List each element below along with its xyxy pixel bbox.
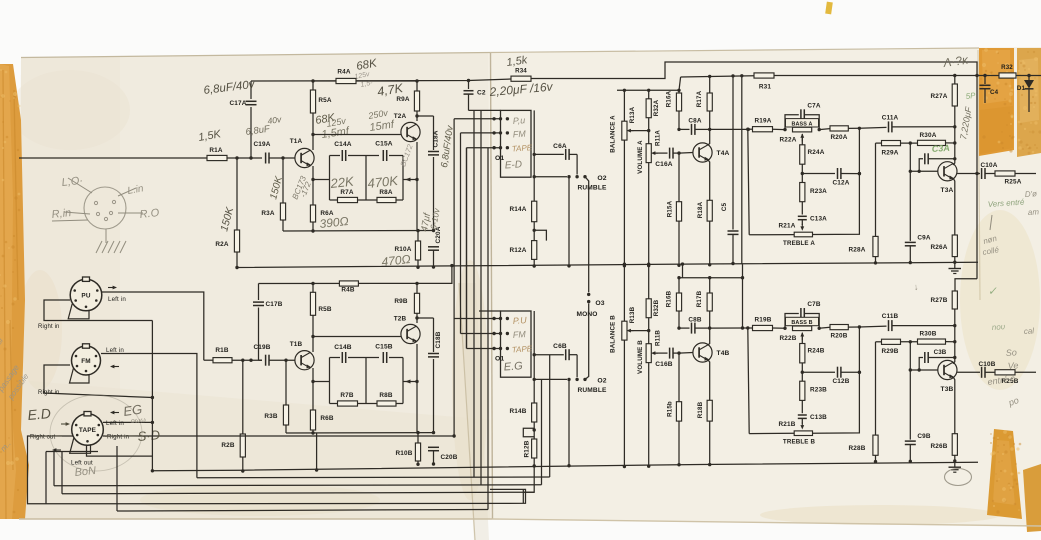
svg-text:D'ø: D'ø — [1025, 189, 1038, 199]
svg-text:R15A: R15A — [667, 200, 674, 217]
svg-text:R9B: R9B — [394, 298, 407, 305]
potentiometer bass track B — [793, 326, 812, 331]
svg-text:R24A: R24A — [808, 149, 825, 156]
capacitor C20B — [432, 431, 435, 434]
transistor T1B — [295, 351, 314, 370]
fold crease lower middle — [459, 283, 489, 540]
svg-text:R3A: R3A — [261, 210, 274, 217]
crease before right tape — [978, 50, 980, 300]
svg-text:O2: O2 — [597, 175, 606, 182]
svg-text:R9A: R9A — [396, 96, 409, 103]
vertical feed to B — [976, 76, 978, 174]
capacitor C11B — [859, 325, 886, 328]
capacitor C11A — [859, 126, 886, 129]
svg-text:R12A: R12A — [510, 247, 527, 254]
svg-text:C4: C4 — [990, 89, 999, 96]
svg-text:R10B: R10B — [396, 450, 413, 457]
svg-text:MONO: MONO — [576, 311, 597, 318]
svg-text:R32A: R32A — [653, 99, 660, 116]
wire box stubs — [313, 179, 330, 181]
svg-text:L,O·: L,O· — [61, 175, 84, 189]
svg-text:nου: nου — [992, 322, 1006, 332]
pencil hatch under DIN sketch — [96, 241, 102, 253]
bus riser L3 — [541, 380, 543, 485]
wire O2A return — [568, 177, 570, 266]
svg-text:C11B: C11B — [882, 313, 899, 320]
bundle riser 4 — [473, 110, 475, 477]
svg-text:Left in: Left in — [106, 420, 124, 427]
resistor R28B — [875, 342, 877, 435]
wire O1B row2 — [461, 333, 501, 335]
wire T1B emitter — [312, 368, 314, 410]
capacitor C6B — [533, 353, 536, 356]
svg-text:PU: PU — [81, 292, 90, 299]
pencil DIN sketch circle — [84, 187, 126, 229]
RC box C14A R7A C15A R8A — [330, 155, 341, 157]
resistor R23A — [801, 174, 803, 183]
wire TAPE right-in — [103, 435, 454, 437]
arrow left near right-out — [55, 449, 61, 451]
wire O2B return — [568, 379, 570, 465]
resistor R6A — [310, 205, 315, 222]
resistor R12B — [532, 439, 537, 458]
resistor R5B — [311, 282, 314, 285]
wire O1A row2 — [461, 132, 501, 134]
svg-text:TREBLE B: TREBLE B — [783, 439, 816, 446]
svg-text:VOLUME B: VOLUME B — [637, 340, 644, 374]
potentiometer volume B — [648, 331, 650, 344]
svg-text:E.G: E.G — [503, 360, 523, 373]
resistor R15b — [678, 353, 680, 402]
svg-text:R5B: R5B — [318, 306, 331, 313]
resistor R12A — [532, 241, 537, 260]
wire FM left-in — [101, 354, 197, 478]
resistor R5A — [311, 79, 314, 82]
svg-text:Right in: Right in — [38, 390, 60, 396]
wire O3 to O2B — [586, 304, 589, 380]
svg-text:C17A: C17A — [230, 100, 247, 107]
arrow TAPE left-in — [113, 412, 119, 414]
resistor R25B — [995, 370, 1015, 375]
svg-text:R21A: R21A — [779, 223, 796, 230]
svg-text:R16B: R16B — [666, 290, 673, 307]
connector PU — [70, 279, 102, 311]
svg-text:T1A: T1A — [290, 138, 303, 145]
wire O2A to O3 — [585, 177, 589, 293]
potentiometer R13B balance — [623, 263, 626, 266]
transistor T2A — [401, 122, 420, 141]
svg-text:R11B: R11B — [655, 330, 662, 346]
svg-text:O3: O3 — [595, 300, 604, 307]
svg-text:R19B: R19B — [755, 317, 772, 324]
top right tape piece 2 — [1017, 48, 1041, 157]
resistor R17A — [709, 76, 711, 93]
yellow mark top — [825, 2, 833, 15]
transistor T4A — [693, 143, 712, 162]
svg-text:R2A: R2A — [215, 241, 228, 248]
svg-text:P,u: P,u — [512, 115, 525, 126]
wiper treble A — [801, 224, 803, 228]
resistor R7B — [338, 401, 358, 406]
svg-text:Sο: Sο — [1005, 347, 1017, 358]
svg-text:C17B: C17B — [266, 301, 283, 308]
svg-text:R29B: R29B — [882, 348, 899, 355]
svg-text:VOLUME A: VOLUME A — [637, 140, 644, 174]
resistor R31 — [754, 73, 774, 78]
svg-text:TAPE: TAPE — [79, 427, 97, 434]
resistor R4B — [339, 281, 358, 286]
capacitor C2 — [467, 79, 470, 82]
bass loop C7B — [785, 314, 799, 329]
svg-text:C7B: C7B — [807, 301, 820, 308]
diode D1 — [1028, 76, 1030, 81]
pencil arrow right edge — [990, 215, 992, 230]
resistor R1B — [204, 359, 213, 361]
svg-text:Right out: Right out — [30, 435, 56, 441]
svg-text:R16A: R16A — [666, 90, 673, 107]
svg-text:R19A: R19A — [755, 118, 772, 125]
wire top rail A — [251, 79, 511, 81]
wire top rail B — [259, 266, 452, 284]
svg-text:FM: FM — [512, 129, 526, 140]
capacitor C8B — [679, 327, 690, 329]
wire PU left-in — [102, 292, 204, 360]
wiper bass A — [801, 136, 803, 141]
svg-text:C16A: C16A — [655, 161, 673, 168]
transistor T4B — [693, 343, 712, 362]
paper edge shadows — [21, 53, 490, 58]
svg-text:Right in: Right in — [107, 434, 130, 441]
wire T2B base — [313, 336, 401, 338]
arrow into TAPE — [61, 423, 67, 425]
switch O3 mono — [587, 293, 590, 296]
svg-text:C3A: C3A — [931, 143, 950, 154]
wire O1B row1 — [454, 318, 500, 320]
wiper bass B — [801, 335, 803, 340]
wiper treble B — [801, 423, 803, 427]
wire feedback line B — [286, 432, 434, 434]
svg-text:C14B: C14B — [334, 344, 352, 351]
bus line L2 — [197, 476, 550, 479]
resistor R10A — [415, 241, 420, 260]
svg-text:R21B: R21B — [779, 421, 796, 428]
svg-text:R30A: R30A — [920, 132, 937, 139]
svg-text:22K: 22K — [329, 174, 356, 192]
svg-text:Left in: Left in — [108, 296, 126, 303]
wire B feed jog — [955, 279, 977, 291]
resistor R8B — [377, 401, 396, 406]
potentiometer R13A balance — [623, 89, 626, 92]
resistor R32A — [647, 89, 650, 92]
svg-text:R27A: R27A — [931, 93, 948, 100]
svg-text:TAPE: TAPE — [512, 344, 534, 354]
wire treble bottom A — [749, 234, 794, 236]
svg-text:E-D: E-D — [504, 159, 522, 171]
transistor T1A — [295, 148, 314, 167]
svg-text:C18B: C18B — [435, 331, 442, 348]
wiper balance A — [630, 130, 634, 132]
resistor R27A — [954, 76, 956, 85]
resistor R4A — [313, 80, 336, 82]
switch box O1 B — [501, 311, 532, 377]
resistor R19A — [748, 128, 753, 130]
resistor R15A — [678, 153, 680, 202]
svg-text:R17A: R17A — [696, 90, 703, 107]
wire FM right-in — [44, 365, 152, 398]
svg-text:BASS A: BASS A — [791, 121, 812, 127]
svg-text:T3A: T3A — [941, 187, 954, 194]
connector TAPE — [72, 414, 104, 446]
capacitor C19A — [265, 153, 267, 164]
pencil circle around TAPE — [50, 395, 142, 471]
resistor R20A — [830, 126, 848, 131]
wire T2A emitter down — [416, 142, 418, 180]
resistor R10B — [415, 443, 420, 461]
resistor R16B — [678, 278, 680, 293]
resistor R29A — [876, 142, 882, 144]
resistor R20B — [830, 325, 848, 330]
svg-text:C10A: C10A — [981, 162, 998, 169]
svg-text:C7A: C7A — [807, 103, 820, 110]
svg-text:R28B: R28B — [849, 445, 866, 452]
svg-text:FM: FM — [81, 358, 91, 365]
resistor R14B — [533, 311, 535, 403]
long vertical V2 — [741, 76, 743, 264]
resistor R8A — [377, 197, 396, 202]
svg-text:R23A: R23A — [810, 188, 827, 195]
wire TAPE right-out left side — [28, 436, 74, 504]
svg-text:TREBLE A: TREBLE A — [783, 240, 815, 247]
svg-text:O1: O1 — [495, 155, 504, 162]
svg-text:R17B: R17B — [696, 290, 703, 307]
svg-text:R13B: R13B — [629, 306, 636, 323]
capacitor C16B — [669, 348, 671, 359]
svg-text:R18A: R18A — [697, 201, 704, 218]
bass loop C7A — [785, 115, 799, 130]
transistor T3A — [938, 162, 957, 181]
resistor R2A — [236, 158, 238, 230]
svg-text:R8A: R8A — [379, 189, 392, 196]
wire T4A emitter — [708, 160, 710, 200]
resistor R18A — [707, 200, 712, 221]
svg-text:T2A: T2A — [394, 113, 407, 120]
capacitor C12B — [802, 371, 835, 373]
wire input line A — [19, 157, 207, 159]
switch box O1 A — [501, 110, 532, 177]
bus line L5 — [46, 489, 526, 503]
svg-text:R27B: R27B — [931, 297, 948, 304]
svg-text:R1B: R1B — [215, 347, 228, 354]
svg-text:R,in: R,in — [51, 207, 72, 221]
svg-text:T4A: T4A — [717, 150, 730, 157]
bottom right tape wedge — [987, 429, 1022, 519]
svg-text:R12B: R12B — [524, 440, 531, 457]
wire TAPE bottom left-out — [87, 445, 153, 456]
resistor R9B — [415, 282, 418, 285]
svg-text:C8A: C8A — [688, 118, 701, 125]
wire right rail — [681, 76, 754, 77]
capacitor C20A — [432, 229, 435, 232]
resistor R19B — [743, 327, 753, 329]
wire T3A collector — [953, 127, 955, 165]
wire B tone feed jog — [679, 277, 743, 279]
svg-text:C11A: C11A — [882, 115, 899, 122]
bundle riser 5 — [480, 111, 482, 485]
svg-text:T2B: T2B — [394, 316, 407, 323]
resistor R3A — [281, 156, 284, 159]
wire TAPE left-in — [103, 421, 152, 423]
RC box B C14B R7B C15B R8B — [330, 357, 341, 359]
capacitor C10A output — [957, 173, 980, 175]
svg-text:↓: ↓ — [913, 282, 918, 292]
svg-text:R22A: R22A — [780, 137, 797, 144]
bundle vertical A-B row3 — [466, 148, 468, 349]
paper right page — [490, 47, 1041, 527]
svg-text:C8B: C8B — [688, 317, 701, 324]
resistor R23B — [801, 372, 803, 381]
svg-text:R3B: R3B — [264, 413, 277, 420]
resistor R24B — [800, 344, 805, 363]
switch O2 rumble A — [576, 154, 578, 174]
resistor R29B — [876, 341, 882, 343]
wire T2A base line — [313, 134, 401, 136]
resistor R16A — [677, 89, 680, 92]
svg-text:R30B: R30B — [920, 331, 937, 338]
wiper balance B — [630, 330, 634, 332]
bus line L4 — [62, 492, 534, 494]
ground symbol B with pencil circle — [954, 461, 956, 467]
capacitor C17A — [250, 81, 252, 99]
bus line L6 — [117, 510, 488, 512]
capacitor C5 — [732, 76, 734, 230]
resistor R2B — [242, 360, 244, 434]
capacitor C4 — [984, 76, 986, 85]
svg-text:R11A: R11A — [655, 130, 662, 146]
bundle riser 6 — [487, 148, 489, 510]
svg-text:BASS B: BASS B — [791, 320, 812, 326]
bus line L3 — [54, 485, 542, 486]
page seam crease — [491, 53, 493, 520]
potentiometer bass track A — [793, 127, 812, 132]
svg-text:R7B: R7B — [340, 392, 353, 399]
wiper volume A — [654, 152, 658, 154]
resistor R27B — [952, 291, 957, 309]
svg-text:R28A: R28A — [849, 247, 866, 254]
svg-text:C19B: C19B — [254, 344, 271, 351]
svg-text:T4B: T4B — [717, 350, 730, 357]
vertical V3 treble A left — [748, 129, 749, 235]
wire T2B emitter — [416, 344, 418, 382]
svg-text:R32B: R32B — [653, 299, 660, 316]
wire PU right-in — [44, 300, 152, 321]
resistor R34 — [511, 76, 531, 81]
wire ground rail B — [152, 462, 978, 471]
capacitor C10B output — [957, 371, 980, 373]
resistor R24A — [800, 145, 805, 164]
potentiometer treble track A — [794, 232, 812, 237]
capacitor C19B — [265, 355, 267, 366]
wire O1A row1 — [454, 118, 500, 120]
svg-text:C3B: C3B — [934, 349, 947, 356]
svg-text:BALANCE B: BALANCE B — [610, 315, 617, 353]
svg-text:C20B: C20B — [441, 454, 458, 461]
svg-text:C13A: C13A — [810, 216, 827, 223]
ground symbol A — [954, 262, 956, 268]
svg-text:D1: D1 — [1017, 85, 1026, 92]
svg-text:FM: FM — [512, 329, 526, 340]
svg-text:R5A: R5A — [318, 97, 331, 104]
resistor R26B — [952, 434, 957, 456]
resistor R1A — [207, 155, 227, 160]
svg-text:R23B: R23B — [810, 387, 827, 394]
transistor T2B — [401, 324, 420, 343]
capacitor C9A — [909, 143, 911, 241]
svg-text:R2B: R2B — [221, 442, 234, 449]
vertical V3 treble B left — [748, 328, 749, 434]
capacitor C8A — [679, 128, 690, 130]
bundle vertical A-B row2 — [460, 133, 462, 334]
arrow FM left-in — [113, 366, 119, 368]
svg-text:am: am — [1028, 207, 1040, 217]
resistor R6B — [310, 410, 315, 430]
resistor R30A — [918, 140, 946, 145]
resistor R30B — [918, 339, 946, 344]
svg-text:R14B: R14B — [510, 408, 527, 415]
bus riser L2 — [549, 355, 551, 477]
svg-text:R20B: R20B — [831, 333, 848, 340]
capacitor C16A — [669, 148, 671, 159]
capacitor C6A — [533, 153, 536, 156]
svg-text:RUMBLE: RUMBLE — [577, 387, 607, 394]
capacitor C9B — [909, 342, 911, 440]
svg-text:Ve: Ve — [1007, 360, 1018, 371]
arrow PU left-in — [108, 287, 114, 289]
svg-text:O2: O2 — [597, 378, 606, 385]
resistor R3B — [284, 359, 287, 362]
svg-text:R18B: R18B — [697, 401, 704, 418]
wire ground rail A — [237, 262, 978, 267]
paper left page — [19, 53, 492, 520]
svg-text:C14A: C14A — [334, 141, 352, 148]
wire O1B row3 — [467, 348, 501, 350]
potentiometer treble track B — [794, 431, 812, 436]
svg-text:R26B: R26B — [931, 443, 948, 450]
svg-text:C12B: C12B — [833, 378, 850, 385]
svg-text:R25A: R25A — [1005, 179, 1022, 186]
svg-text:T1B: T1B — [290, 341, 303, 348]
resistor R26A — [952, 235, 957, 257]
svg-text:P.U: P.U — [512, 315, 527, 326]
svg-text:R6B: R6B — [320, 415, 333, 422]
left edge tape — [0, 64, 29, 519]
wire mid rail A — [617, 89, 679, 91]
svg-text:R.O: R.O — [139, 207, 160, 221]
svg-text:R24B: R24B — [808, 348, 825, 355]
svg-text:S·D: S·D — [137, 427, 161, 444]
svg-text:✓: ✓ — [987, 285, 998, 298]
svg-text:40v: 40v — [267, 114, 283, 126]
svg-text:cal: cal — [1024, 326, 1035, 336]
svg-text:R15b: R15b — [667, 401, 674, 417]
svg-text:C9A: C9A — [917, 235, 930, 242]
bundle vertical A-B row1 — [453, 119, 455, 436]
wire T4A collector — [708, 129, 710, 145]
svg-text:C12A: C12A — [833, 180, 850, 187]
svg-text:BοN: BοN — [74, 465, 97, 479]
connector FM — [72, 346, 101, 375]
svg-text:R34: R34 — [515, 68, 527, 75]
svg-text:C19A: C19A — [254, 141, 271, 148]
